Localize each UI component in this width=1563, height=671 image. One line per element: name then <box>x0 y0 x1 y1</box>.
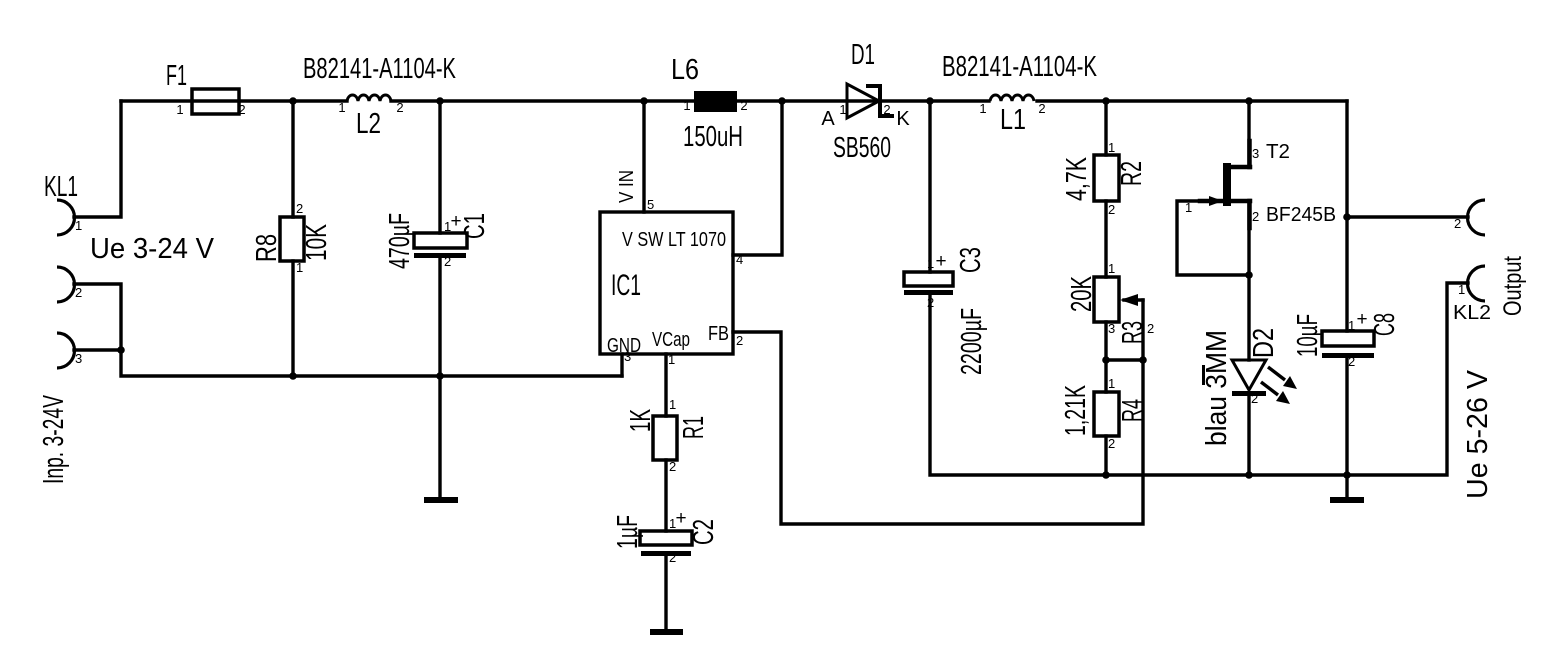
wire top bus left segment <box>121 99 347 102</box>
svg-text:B82141-A1104-K: B82141-A1104-K <box>942 51 1097 83</box>
wire C8 bottom to bus <box>1345 357 1348 475</box>
capacitor C2 top plate <box>640 531 692 545</box>
connector KL1 terminal 2 <box>57 267 75 302</box>
svg-text:SB560: SB560 <box>833 132 891 164</box>
svg-text:1: 1 <box>444 219 451 234</box>
svg-text:V IN: V IN <box>616 170 638 203</box>
svg-text:1: 1 <box>338 100 345 115</box>
connector KL1 terminal 3 <box>57 333 75 368</box>
svg-text:L6: L6 <box>671 54 699 86</box>
svg-text:2: 2 <box>1038 101 1045 116</box>
wire R2 top branch <box>1104 101 1107 155</box>
wire T2 source to D2 <box>1247 275 1250 360</box>
capacitor C3 top plate <box>904 272 953 286</box>
diode D1 schottky cathode bar <box>866 86 894 116</box>
connector KL1 terminal 1 <box>57 200 75 235</box>
svg-text:Output: Output <box>1499 256 1527 316</box>
node junction C3 top <box>926 97 934 105</box>
svg-text:2: 2 <box>1108 436 1115 451</box>
svg-text:+: + <box>675 508 686 529</box>
node junction D2 bus <box>1245 471 1253 479</box>
svg-text:Ue 3-24 V: Ue 3-24 V <box>90 233 215 265</box>
svg-text:1: 1 <box>1108 140 1115 155</box>
wire C3 top branch <box>928 101 931 272</box>
node junction KL1 pin3 <box>117 346 125 354</box>
wire T2 drain pin <box>1247 141 1252 167</box>
svg-text:3: 3 <box>1252 146 1259 161</box>
svg-text:R4: R4 <box>1117 399 1149 422</box>
resistor R1 pin numbers <box>669 397 676 474</box>
wire T2 gate loop <box>1177 201 1249 275</box>
svg-text:T2: T2 <box>1266 141 1290 163</box>
wire T2 source <box>1247 201 1250 275</box>
potentiometer R3 pin numbers <box>1108 261 1154 336</box>
resistor R4 pin numbers <box>1108 376 1115 451</box>
inductor L6 pin numbers <box>683 98 747 113</box>
wire R3 wiper arrow shaft <box>1124 298 1143 301</box>
svg-text:A: A <box>821 108 835 130</box>
node junction R2 top <box>1102 97 1110 105</box>
wire C1 bottom to ground <box>438 258 441 497</box>
svg-text:blau 3MM: blau 3MM <box>1201 330 1233 446</box>
transistor T2 gate arrowhead <box>1209 196 1223 206</box>
svg-text:F1: F1 <box>166 60 187 92</box>
svg-text:1: 1 <box>1108 376 1115 391</box>
LED D2 cathode bar <box>1232 391 1266 396</box>
wire IC1 VCap pin1 to R1 <box>664 354 667 416</box>
svg-text:2: 2 <box>1108 202 1115 217</box>
svg-text:3: 3 <box>75 351 82 366</box>
wire R8 top branch <box>291 101 294 217</box>
svg-text:1: 1 <box>668 352 675 367</box>
wire output branch vertical <box>1345 101 1348 331</box>
svg-text:KL1: KL1 <box>44 171 78 203</box>
wire R2 to R3 <box>1104 201 1107 277</box>
diode D1 pin numbers <box>839 102 890 117</box>
wire T2 gate lead <box>1200 199 1222 204</box>
node junction C8 bus <box>1343 471 1351 479</box>
svg-text:K: K <box>896 108 910 130</box>
svg-text:2: 2 <box>669 459 676 474</box>
svg-text:3: 3 <box>1108 321 1115 336</box>
ground symbol under C1 <box>424 497 458 503</box>
inductor L2 coil <box>347 95 391 101</box>
svg-text:IC1: IC1 <box>611 269 641 302</box>
transistor T2 channel bar <box>1223 163 1231 206</box>
wire T2 source lead <box>1231 199 1250 204</box>
svg-text:L2: L2 <box>356 108 381 140</box>
wire C2 to ground <box>664 556 667 629</box>
ground symbol under C8 <box>1330 497 1364 503</box>
node junction output tee <box>1343 213 1351 221</box>
resistor R2 pin numbers <box>1108 140 1115 217</box>
diode D1 triangle <box>847 84 879 118</box>
wire top bus right segment <box>1037 99 1347 102</box>
wire top bus middle segment <box>391 99 989 102</box>
wire R3 wiper vertical <box>1141 300 1144 360</box>
capacitor C2 bottom plate <box>641 551 691 556</box>
svg-text:1,21K: 1,21K <box>1060 385 1092 436</box>
wire IC1 pin4 V SW to top bus <box>733 101 782 255</box>
inductor L6 body <box>694 91 737 112</box>
wire R1 to C2 <box>664 460 667 531</box>
node junction V SW <box>778 97 786 105</box>
node junction R8 top <box>289 97 297 105</box>
svg-text:2: 2 <box>669 550 676 565</box>
capacitor C1 bottom plate <box>414 253 466 258</box>
svg-text:2: 2 <box>238 102 245 117</box>
resistor R2 body <box>1094 155 1119 201</box>
svg-text:10µF: 10µF <box>1292 314 1324 357</box>
svg-text:V SW LT 1070: V SW LT 1070 <box>622 229 726 251</box>
svg-text:1: 1 <box>669 516 676 531</box>
svg-text:4: 4 <box>736 252 743 267</box>
wire KL1 pin2 to bottom bus <box>74 284 622 376</box>
wire D2 to bus <box>1247 395 1250 475</box>
capacitor C8 top plate <box>1322 331 1374 346</box>
svg-text:1: 1 <box>979 101 986 116</box>
svg-text:2: 2 <box>1348 354 1355 369</box>
resistor R8 body <box>280 217 304 261</box>
svg-text:2: 2 <box>1454 216 1461 231</box>
wire T2 drain <box>1247 101 1250 167</box>
svg-text:2: 2 <box>740 98 747 113</box>
svg-text:1: 1 <box>296 260 303 275</box>
potentiometer R3 body <box>1094 277 1119 322</box>
svg-text:5: 5 <box>647 197 654 212</box>
inductor L1 pin numbers <box>979 101 1045 116</box>
connector KL2 terminal 1 <box>1468 266 1486 301</box>
potentiometer R3 wiper arrowhead <box>1120 294 1138 306</box>
wire IC1 pin5 V IN <box>642 101 645 212</box>
node junction R4 bus <box>1102 471 1110 479</box>
svg-text:KL2: KL2 <box>1453 302 1491 324</box>
svg-text:2: 2 <box>883 102 890 117</box>
ground symbol under C2 <box>650 629 683 635</box>
svg-text:D1: D1 <box>851 39 875 71</box>
svg-text:1: 1 <box>1458 282 1465 297</box>
capacitor C8 pin numbers <box>1348 318 1355 369</box>
svg-text:C8: C8 <box>1369 313 1401 336</box>
wire R3 to R4 <box>1104 322 1107 392</box>
svg-text:2: 2 <box>444 254 451 269</box>
node junction V IN <box>640 97 648 105</box>
diode D1 pin labels A K <box>821 108 910 130</box>
connector KL2 terminal 2 <box>1468 200 1486 235</box>
svg-text:R3: R3 <box>1117 321 1149 344</box>
connector KL1 pin numbers <box>75 218 82 366</box>
resistor R8 pin numbers <box>296 201 303 275</box>
svg-text:VCap: VCap <box>652 329 690 351</box>
svg-text:D2: D2 <box>1248 328 1280 358</box>
wire KL1 pin1 to top bus <box>74 101 121 217</box>
capacitor C1 pin numbers <box>444 219 451 269</box>
svg-text:1: 1 <box>683 98 690 113</box>
wire T2 source pin <box>1247 201 1252 228</box>
svg-text:2200µF: 2200µF <box>956 308 988 375</box>
svg-text:150uH: 150uH <box>683 121 743 153</box>
fuse F1 pin numbers <box>176 102 245 117</box>
svg-text:2: 2 <box>1147 321 1154 336</box>
wire C8 ground stub <box>1345 475 1348 497</box>
LED D2 triangle <box>1232 360 1266 390</box>
svg-text:1: 1 <box>1348 318 1355 333</box>
svg-text:1: 1 <box>176 102 183 117</box>
svg-text:20K: 20K <box>1066 276 1098 312</box>
LED D2 arrow 1 <box>1268 367 1297 389</box>
wire T2 drain lead <box>1231 165 1250 170</box>
inductor L1 coil <box>990 95 1034 101</box>
svg-text:470µF: 470µF <box>384 213 416 269</box>
svg-text:2: 2 <box>296 201 303 216</box>
wire C3 bottom to bus <box>930 283 1468 475</box>
capacitor C8 bottom plate <box>1322 353 1374 358</box>
svg-text:Ue 5-26 V: Ue 5-26 V <box>1462 369 1494 499</box>
capacitor C1 top plate <box>414 233 467 248</box>
op-amp IC1 box <box>600 212 733 354</box>
node junction C1 bottom <box>436 372 444 380</box>
node junction T2 source <box>1245 271 1253 279</box>
svg-text:R1: R1 <box>678 416 710 439</box>
svg-text:1µF: 1µF <box>612 515 644 549</box>
svg-text:1: 1 <box>669 397 676 412</box>
svg-text:2: 2 <box>736 333 743 348</box>
LED D2 arrow 2 <box>1261 382 1290 404</box>
wire IC1 FB feedback run <box>733 332 1143 524</box>
svg-text:L1: L1 <box>1000 104 1026 136</box>
resistor R1 body <box>653 416 677 460</box>
svg-text:+: + <box>1356 309 1367 330</box>
svg-text:4,7K: 4,7K <box>1061 157 1093 201</box>
node junction T2 drain <box>1245 97 1253 105</box>
svg-text:1: 1 <box>927 256 934 271</box>
node junction wiper <box>1139 356 1147 364</box>
inductor L2 pin numbers <box>338 100 403 115</box>
node junction R3-R4 <box>1102 356 1110 364</box>
svg-text:10K: 10K <box>301 224 333 261</box>
node junction C1 top <box>436 97 444 105</box>
svg-text:1: 1 <box>1185 200 1192 215</box>
resistor R4 body <box>1094 392 1119 436</box>
svg-text:R8: R8 <box>251 234 283 262</box>
svg-text:FB: FB <box>708 323 729 345</box>
svg-text:BF245B: BF245B <box>1266 204 1336 226</box>
transistor T2 pin numbers <box>1185 146 1259 224</box>
svg-text:2: 2 <box>75 285 82 300</box>
svg-text:C1: C1 <box>459 213 491 239</box>
wire R8 bottom branch <box>291 261 294 376</box>
wire R3 wiper link <box>1106 358 1143 361</box>
svg-text:3: 3 <box>624 349 631 364</box>
wire IC1 GND pin3 <box>620 354 623 376</box>
svg-text:Inp. 3-24V: Inp. 3-24V <box>38 395 70 484</box>
op-amp IC1 pin numbers <box>624 197 743 367</box>
svg-text:C3: C3 <box>955 247 987 273</box>
svg-text:B82141-A1104-K: B82141-A1104-K <box>303 53 456 85</box>
svg-text:2: 2 <box>396 100 403 115</box>
fuse F1 <box>192 89 239 114</box>
capacitor C3 pin numbers <box>927 256 934 310</box>
svg-text:R2: R2 <box>1116 161 1148 186</box>
node junction R8 bottom <box>289 372 297 380</box>
svg-text:2: 2 <box>1251 391 1258 406</box>
capacitor C3 bottom plate <box>904 290 953 295</box>
svg-text:1: 1 <box>839 102 846 117</box>
svg-text:2: 2 <box>1252 209 1259 224</box>
svg-text:C2: C2 <box>688 519 720 545</box>
connector KL2 pin numbers <box>1454 216 1465 297</box>
svg-text:1K: 1K <box>625 409 657 432</box>
svg-text:2: 2 <box>927 295 934 310</box>
capacitor C2 pin numbers <box>669 516 676 565</box>
wire output to KL2 pin2 <box>1347 215 1468 218</box>
svg-text:1: 1 <box>1108 261 1115 276</box>
wire KL1 pin3 stub <box>74 348 121 351</box>
svg-text:1: 1 <box>75 218 82 233</box>
wire C1 top branch <box>438 101 441 233</box>
wire R4 to bus <box>1104 436 1107 475</box>
svg-text:+: + <box>935 251 946 272</box>
